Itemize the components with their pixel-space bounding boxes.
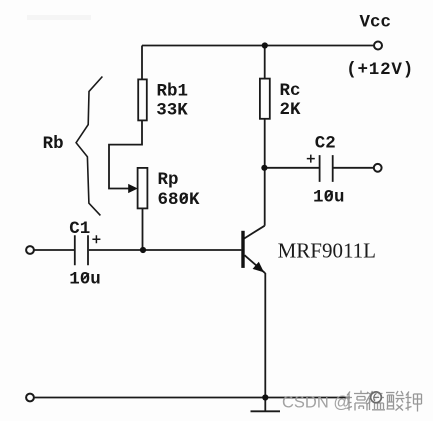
svg-text:2K: 2K: [280, 100, 302, 120]
svg-text:C1: C1: [69, 219, 90, 239]
svg-text:Rp: Rp: [158, 170, 179, 190]
svg-text:Vcc: Vcc: [360, 12, 392, 32]
svg-text:Rb: Rb: [43, 134, 64, 154]
svg-text:Rb1: Rb1: [157, 82, 189, 102]
svg-text:(+12V): (+12V): [346, 60, 414, 80]
svg-text:10u: 10u: [69, 269, 101, 289]
svg-text:680K: 680K: [158, 190, 201, 210]
svg-text:Rc: Rc: [280, 81, 301, 101]
svg-text:MRF9011L: MRF9011L: [278, 239, 376, 263]
svg-text:CSDN @: CSDN @: [282, 394, 350, 412]
svg-text:C2: C2: [315, 134, 336, 154]
svg-text:33K: 33K: [156, 101, 188, 121]
svg-text:10u: 10u: [313, 187, 345, 207]
